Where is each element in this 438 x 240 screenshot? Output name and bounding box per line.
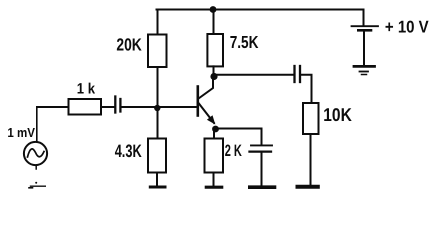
svg-text:7.5K: 7.5K [230, 32, 259, 52]
svg-text:10K: 10K [323, 104, 352, 125]
svg-text:1 k: 1 k [77, 81, 96, 98]
svg-text:20K: 20K [116, 34, 142, 54]
svg-text:4.3K: 4.3K [115, 141, 142, 161]
svg-text:2 K: 2 K [225, 142, 242, 160]
svg-text:+ 10 V: + 10 V [385, 18, 429, 37]
svg-text:1 mV: 1 mV [7, 125, 35, 140]
